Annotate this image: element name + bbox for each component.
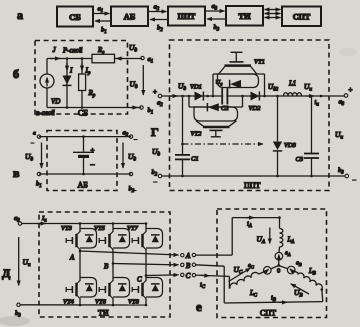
node VT1 right: [263, 95, 266, 98]
svg-text:СБ: СБ: [69, 12, 81, 22]
wire top rail ТИ: [22, 223, 146, 225]
diode VD3: [273, 96, 297, 176]
svg-text:VT5: VT5: [94, 225, 106, 232]
svg-text:A: A: [185, 252, 191, 260]
wire a3 ППТ to ТИ: [206, 3, 225, 12]
wire phase A out: [80, 251, 179, 255]
capacitor C3: [296, 96, 320, 176]
svg-text:ППТ: ППТ: [178, 12, 196, 21]
transistor VT3: [61, 225, 97, 250]
svg-text:A: A: [69, 254, 75, 262]
wire leg 1: [79, 224, 81, 306]
node bottom diode: [66, 106, 69, 109]
block ППТ: [168, 7, 205, 26]
wire a2 АБ to ППТ: [149, 4, 167, 13]
node bottom Rp: [81, 106, 84, 109]
svg-text:C3: C3: [296, 156, 304, 163]
node phase C: [137, 274, 147, 283]
node VT2 left: [188, 95, 191, 98]
resistor Rp: [79, 59, 86, 108]
svg-text:АБ: АБ: [78, 181, 89, 190]
capacitor C2: [216, 79, 230, 112]
wire bottom return: [224, 302, 323, 303]
svg-text:в: в: [13, 166, 20, 180]
svg-text:+: +: [91, 147, 95, 155]
node top diode: [66, 57, 69, 60]
node star center 0: [277, 264, 280, 274]
inductor LC: [229, 271, 259, 288]
block СБ: [57, 7, 93, 27]
svg-text:C: C: [186, 272, 191, 280]
emf source eB: [287, 260, 301, 274]
wire ТИ-СПТ link 2: [265, 13, 281, 15]
svg-text:АБ: АБ: [124, 12, 136, 22]
terminal b1: [140, 106, 153, 116]
svg-text:VT6: VT6: [95, 299, 107, 306]
node phase A: [69, 250, 81, 262]
polarity minus b3: [352, 180, 357, 181]
wire LB down: [322, 290, 323, 302]
node C1 top: [181, 95, 184, 98]
box СПТ dashed: [217, 209, 327, 318]
transistor VT1 branch: [213, 52, 265, 96]
terminal b2 в: [129, 172, 135, 194]
wire eA to center: [278, 260, 280, 266]
arrow Uд right: [130, 65, 144, 95]
svg-text:VD3: VD3: [284, 142, 297, 149]
wire main rail ППТ: [162, 95, 344, 97]
node battery top: [82, 135, 85, 138]
box ТИ dashed: [39, 212, 170, 317]
svg-text:L1: L1: [288, 81, 296, 88]
block СПТ: [282, 7, 321, 27]
wire phase C out: [146, 274, 179, 277]
terminal b2 ППТ: [152, 169, 162, 178]
wire bottom rail б: [47, 107, 141, 109]
terminal a1: [141, 56, 153, 65]
transistor VT8: [128, 278, 163, 306]
block ТИ: [226, 6, 263, 26]
transistor VT6: [95, 278, 130, 306]
diode in VT2 loop: [207, 103, 218, 111]
node C1 bottom: [181, 175, 184, 178]
arrow Uд left в: [25, 143, 42, 169]
node C3 bottom: [310, 175, 313, 178]
wire bottom rail ППТ: [162, 175, 345, 177]
terminal left top в: [33, 131, 41, 139]
svg-text:0: 0: [277, 268, 280, 275]
svg-text:VT3: VT3: [61, 225, 73, 232]
diode in VT1 loop: [230, 80, 241, 89]
arrow iи: [307, 96, 320, 108]
svg-text:VT2: VT2: [191, 131, 203, 138]
wire down to LA: [279, 218, 281, 229]
terminal b3 ТИ: [15, 303, 21, 318]
svg-text:+: +: [349, 86, 353, 94]
node rail leg1: [79, 222, 82, 225]
svg-text:VT1: VT1: [254, 59, 265, 66]
wire ТИ-СПТ link 1: [265, 9, 281, 11]
terminal b1 в: [36, 172, 42, 189]
label I arrow: [67, 63, 73, 75]
arrow Uи left ТИ: [19, 237, 31, 286]
diode VD: [63, 59, 72, 108]
node VD3 bottom: [276, 175, 279, 178]
svg-text:B: B: [104, 263, 109, 271]
node VT1 left: [212, 95, 215, 98]
svg-text:п-слой: п-слой: [36, 110, 55, 117]
polarity minus b2: [153, 182, 158, 183]
wire phase A into СПТ: [196, 218, 280, 256]
battery АБ: [73, 137, 96, 174]
svg-text:б: б: [13, 67, 19, 81]
svg-text:е: е: [196, 299, 202, 314]
wire eC to LC: [259, 272, 264, 274]
node rail leg3: [145, 222, 148, 225]
wire center to eB: [279, 266, 288, 269]
node VD3 top: [276, 95, 279, 98]
node rail bottom leg1: [79, 304, 82, 307]
svg-text:VD: VD: [51, 98, 60, 106]
terminal b3 ППТ: [338, 167, 349, 178]
box ППТ dashed: [170, 40, 330, 191]
terminal a2 в: [123, 130, 133, 139]
wire top rail в: [39, 136, 131, 138]
svg-text:VT7: VT7: [127, 225, 139, 232]
polarity marks в: [31, 139, 138, 191]
transistor VT4: [63, 278, 97, 306]
arrow current into Rв: [117, 58, 124, 60]
svg-text:Д: Д: [2, 266, 11, 280]
node after C3: [320, 95, 323, 98]
svg-text:C2: C2: [221, 105, 229, 112]
wire b2 ППТ to АБ: [150, 20, 168, 34]
block АБ: [111, 7, 148, 27]
terminal a2 ППТ: [153, 88, 163, 108]
transistor VT5: [94, 225, 130, 250]
svg-text:a: a: [33, 131, 36, 137]
inductor L1: [284, 81, 302, 97]
control dash-dot line: [183, 143, 264, 145]
wire center to eC: [271, 266, 279, 269]
svg-text:+: +: [153, 88, 157, 96]
node corner A: [278, 216, 281, 219]
wire LA to eA: [278, 247, 281, 253]
diode VD2: [249, 92, 262, 113]
svg-text:СБ: СБ: [78, 109, 88, 118]
wire leg 3: [145, 224, 147, 306]
current source photocurrent: [40, 74, 54, 88]
label J with arrow: [50, 46, 60, 59]
node VT2 right: [241, 95, 244, 98]
wire b3 ТИ to ППТ: [207, 19, 226, 33]
wire left branch б: [46, 59, 48, 108]
node phase B: [104, 262, 114, 270]
terminal a3 ТИ: [14, 215, 22, 225]
resistor Rв: [92, 54, 115, 63]
arrow UC: [229, 265, 251, 282]
svg-text:VT4: VT4: [63, 299, 75, 306]
node battery bottom: [82, 173, 85, 176]
terminal pair B: [181, 262, 196, 270]
emf source eC: [248, 262, 271, 274]
emf source eA: [275, 250, 291, 261]
node top Rp: [81, 57, 84, 60]
wire b1 АБ to СБ: [95, 21, 111, 35]
box СБ dashed: [35, 41, 128, 115]
svg-text:СПТ: СПТ: [260, 309, 276, 318]
svg-text:VT8: VT8: [128, 299, 140, 306]
svg-text:ТИ: ТИ: [238, 11, 251, 21]
svg-text:Р-слой: Р-слой: [62, 48, 83, 55]
node LB end: [321, 288, 324, 291]
wire a1 СБ to АБ: [94, 6, 110, 15]
node after VD1: [206, 95, 209, 98]
arrow UA: [257, 228, 270, 246]
diode VD1: [190, 84, 203, 101]
svg-text:C1: C1: [191, 156, 199, 163]
terminal a3 ППТ: [339, 86, 353, 107]
wire ТИ-СПТ link 3: [265, 17, 281, 19]
node control line start: [181, 143, 184, 146]
terminal pair C: [181, 272, 196, 280]
svg-text:а: а: [17, 8, 23, 22]
svg-text:СПТ: СПТ: [293, 13, 311, 22]
arrow Uд right в: [123, 143, 136, 169]
wire bottom rail ТИ: [20, 304, 146, 306]
wire top rail б: [47, 58, 142, 60]
svg-text:ТИ: ТИ: [98, 309, 109, 318]
svg-text:VD1: VD1: [190, 84, 202, 91]
svg-text:ППТ: ППТ: [244, 181, 261, 190]
wire leg 2: [112, 224, 114, 306]
wire bottom rail в: [39, 173, 131, 175]
svg-text:Г: Г: [151, 125, 159, 139]
wire eB to LB: [295, 271, 298, 273]
label Ip arrow: [82, 63, 91, 77]
svg-text:C: C: [137, 276, 142, 284]
capacitor C1: [175, 96, 199, 176]
wire phase B into СПТ: [196, 265, 225, 303]
transistor VT2 branch: [189, 96, 243, 138]
node rail bottom leg3: [145, 304, 148, 307]
inductor LA: [280, 229, 295, 247]
wire phase B out: [113, 264, 179, 265]
inductor LB: [298, 272, 324, 290]
arrow UB: [291, 284, 309, 299]
box АБ dashed: [47, 131, 117, 191]
terminal pair A: [181, 252, 196, 260]
node rail bottom leg2: [112, 304, 115, 307]
transistor VT7: [127, 225, 163, 250]
svg-text:B: B: [186, 262, 191, 270]
svg-text:VD2: VD2: [249, 105, 262, 112]
wire phase C into СПТ: [196, 275, 230, 289]
node rail leg2: [112, 222, 115, 225]
